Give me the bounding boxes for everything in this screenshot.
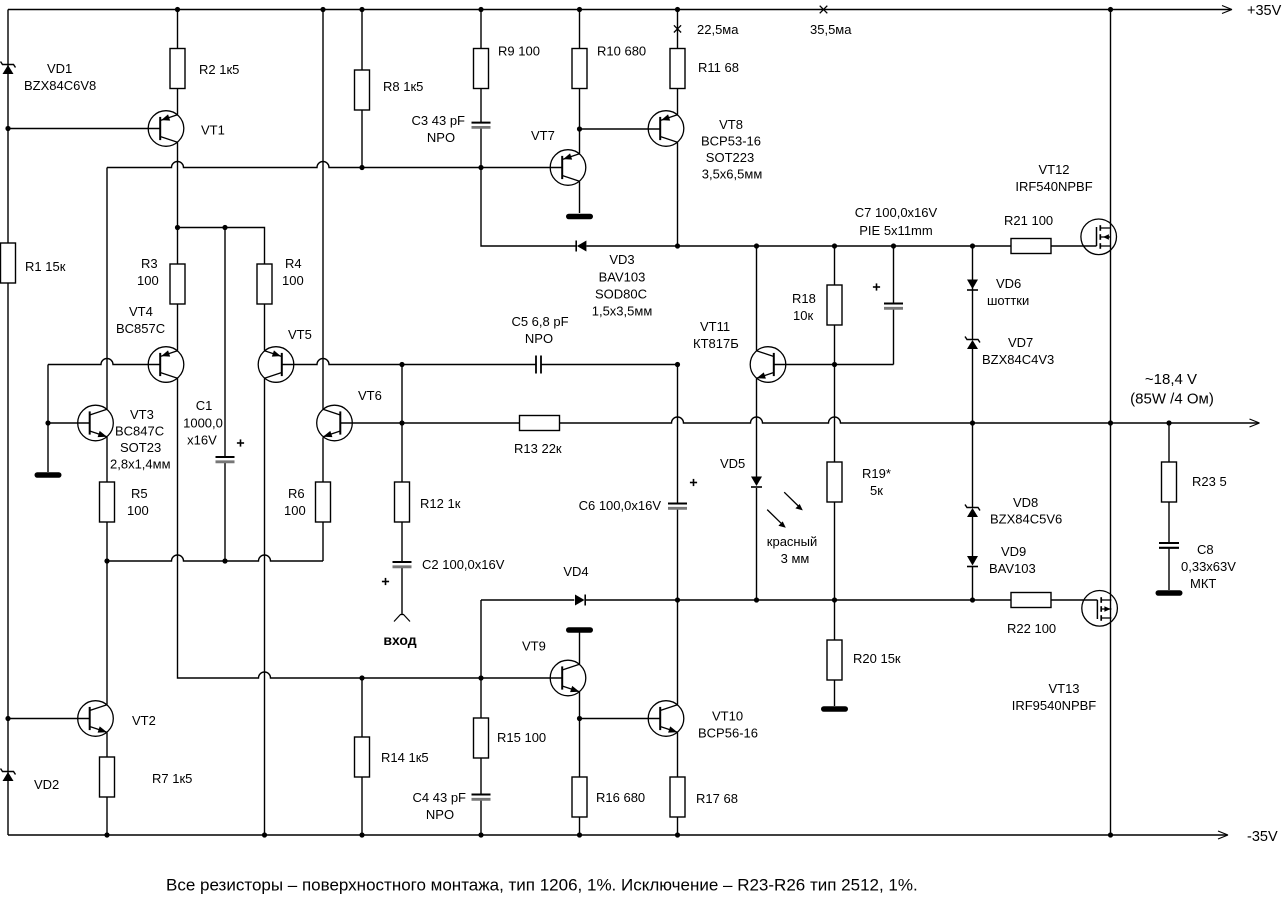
node C3 bottom on y167 (478, 165, 483, 170)
node VT6 collector top rail (320, 7, 325, 12)
transistor VT7 (PNP) (550, 150, 586, 186)
svg-text:R2 1к5: R2 1к5 (199, 62, 239, 77)
wire R9 to C3 (480, 89, 482, 123)
ground C8 (1158, 590, 1180, 596)
wire C7 top lead (893, 246, 895, 304)
node C1 top feed (222, 225, 227, 230)
capacitor C7 100,0x16V (884, 303, 903, 305)
svg-text:вход: вход (383, 632, 416, 648)
plus C1 (237, 442, 244, 444)
svg-text:C3 43 pF: C3 43 pF (412, 113, 466, 128)
resistor R2 (170, 49, 185, 89)
svg-text:R23 5: R23 5 (1192, 474, 1227, 489)
node VD4/C6/VT10 junction (675, 597, 680, 602)
svg-text:SOD80C: SOD80C (595, 287, 647, 302)
wire VD4 row (481, 599, 574, 601)
node VT11 collector top (754, 243, 759, 248)
wire R11 column top (677, 10, 679, 49)
svg-text:VD6: VD6 (996, 276, 1021, 291)
node C7 top (891, 243, 896, 248)
resistor R19 (827, 462, 842, 502)
wire R23 lead (1168, 423, 1170, 462)
svg-text:1000,0: 1000,0 (183, 416, 223, 431)
resistor R17 (670, 777, 685, 817)
svg-text:VT2: VT2 (132, 713, 156, 728)
node R18 top (832, 243, 837, 248)
node R11 top rail (675, 7, 680, 12)
wire VT3 base network (47, 365, 49, 424)
zener diode VD1 BZX84C6V8 (3, 65, 14, 74)
svg-text:R22 100: R22 100 (1007, 621, 1056, 636)
node VD6 top (970, 243, 975, 248)
svg-text:шоттки: шоттки (987, 293, 1029, 308)
resistor R15 (474, 718, 489, 758)
svg-text:IRF540NPBF: IRF540NPBF (1015, 179, 1092, 194)
svg-text:10к: 10к (793, 308, 813, 323)
resistor R11 (670, 49, 685, 89)
svg-text:VT4: VT4 (129, 304, 153, 319)
svg-text:BC857C: BC857C (116, 321, 165, 336)
wire R8 column (361, 10, 363, 71)
node R8 bottom on y167 (359, 165, 364, 170)
wire VT4 base row (48, 359, 160, 365)
svg-text:-35V: -35V (1247, 829, 1278, 845)
svg-text:R8 1к5: R8 1к5 (383, 79, 423, 94)
resistor R5 (100, 482, 115, 522)
wire x107 down to VT2 (106, 561, 108, 705)
svg-text:NPO: NPO (427, 130, 455, 145)
wire VT11 emitter down to VD5 (756, 378, 758, 477)
wire VT3 emitter to R5 (106, 437, 108, 482)
wire VT10 emitter to R17 (677, 732, 679, 777)
svg-text:R6: R6 (288, 486, 305, 501)
wire VD7 to output node (972, 349, 974, 423)
wire VD4 corner down to y678 (480, 600, 482, 678)
resistor R6 (316, 482, 331, 522)
wire VD3 to C6 node (587, 245, 678, 247)
resistor R13 (520, 416, 560, 431)
node output VD7/VD8 junction (970, 420, 975, 425)
wire R17 bottom (677, 817, 679, 835)
svg-text:~18,4 V: ~18,4 V (1145, 371, 1197, 388)
svg-text:КТ817Б: КТ817Б (693, 336, 739, 351)
node R5 bottom (104, 558, 109, 563)
ground VT7 collector (569, 214, 591, 220)
node R3 top (y227) (175, 225, 180, 230)
svg-text:1,5х3,5мм: 1,5х3,5мм (592, 304, 653, 319)
svg-text:BZX84C6V8: BZX84C6V8 (24, 78, 96, 93)
wire R8 bottom lead (361, 108, 363, 168)
wire R2/VT1 column top (177, 10, 179, 115)
wire y678 row (R14/R15/VT9 base) (362, 677, 562, 679)
svg-text:R3: R3 (141, 256, 158, 271)
LED VD5 красный (751, 477, 762, 487)
capacitor C6 100,0x16V (668, 503, 687, 505)
wire R9/C3 column top (480, 10, 482, 49)
svg-text:R16 680: R16 680 (596, 790, 645, 805)
plus C6 (690, 482, 697, 484)
svg-text:22,5ма: 22,5ма (697, 22, 739, 37)
node VT12 top rail (1108, 7, 1113, 12)
wire VT10 collector up to y600 (677, 600, 679, 705)
wire VT1 base (8, 128, 160, 130)
svg-text:VT7: VT7 (531, 128, 555, 143)
resistor R1 (1, 243, 16, 283)
wire R6 bottom to y561 (322, 520, 324, 561)
wire VD9 bottom lead (972, 567, 974, 601)
svg-text:BAV103: BAV103 (989, 561, 1036, 576)
node R2 top rail (175, 7, 180, 12)
node R8 top rail (359, 7, 364, 12)
zener diode VD8 (967, 508, 978, 517)
svg-text:VT10: VT10 (712, 709, 743, 724)
svg-text:x16V: x16V (187, 433, 217, 448)
svg-text:R12 1к: R12 1к (420, 496, 461, 511)
wire R23 to C8 (1168, 501, 1170, 543)
wire VT6 emitter to R6 (322, 437, 324, 482)
svg-text:R17 68: R17 68 (696, 791, 738, 806)
wire C6 bottom to y600 (677, 508, 679, 600)
wire VT12/VT13 drain column (1110, 10, 1112, 424)
node R18 bottom / VT11 base (832, 362, 837, 367)
resistor R16 (572, 777, 587, 817)
ground VT9 collector (top bar) (569, 627, 591, 633)
svg-text:VD9: VD9 (1001, 544, 1026, 559)
svg-text:C8: C8 (1197, 542, 1214, 557)
input break symbol (вход) (394, 615, 410, 622)
wire VD8-VD9 (972, 517, 974, 557)
svg-text:R15 100: R15 100 (497, 730, 546, 745)
resistor R21 (1011, 239, 1051, 254)
svg-text:BZX84C4V3: BZX84C4V3 (982, 352, 1054, 367)
zener diode VD2 (3, 772, 14, 781)
wire C2 to input break (401, 567, 403, 615)
svg-text:VD5: VD5 (720, 456, 745, 471)
resistor R8 (355, 70, 370, 110)
node R14 bottom rail (359, 832, 364, 837)
wire R5 bottom lead (106, 520, 108, 561)
resistor R14 (355, 737, 370, 777)
svg-text:R7 1к5: R7 1к5 (152, 771, 192, 786)
node output R23 junction (1166, 420, 1171, 425)
node VT13 bottom rail (1108, 832, 1113, 837)
svg-text:NPO: NPO (426, 807, 454, 822)
svg-text:VT13: VT13 (1048, 681, 1079, 696)
wire R20 leads (834, 600, 836, 640)
svg-text:0,33x63V: 0,33x63V (1181, 559, 1236, 574)
wire VT11 base to R18 node (774, 364, 894, 366)
svg-text:BCP53-16: BCP53-16 (701, 134, 761, 149)
resistor R7 (100, 757, 115, 797)
wire VT4 collector down / corner to y678 (178, 378, 363, 678)
transistor VT8 BCP53-16 (PNP) (648, 111, 684, 147)
wire -35V bottom rail (8, 834, 1227, 836)
svg-text:R20 15к: R20 15к (853, 651, 901, 666)
svg-text:PIE 5x11mm: PIE 5x11mm (859, 223, 932, 238)
wire R4 feed (y227 row) (178, 228, 265, 265)
wire VT9 emitter down (579, 692, 581, 719)
svg-text:SOT23: SOT23 (120, 440, 161, 455)
svg-text:VT11: VT11 (700, 319, 730, 334)
wire VT6 base to R13 node (340, 422, 402, 424)
wire VT7 emitter up (579, 129, 581, 154)
resistor R20 (827, 640, 842, 680)
svg-text:VT5: VT5 (288, 327, 312, 342)
wire VT13 gate lead (1051, 599, 1097, 601)
node VD5 bottom (754, 597, 759, 602)
wire VT2 emitter to R7 (106, 732, 108, 757)
wire R10 column top (579, 10, 581, 49)
svg-text:IRF9540NPBF: IRF9540NPBF (1012, 698, 1097, 713)
resistor R18 (827, 285, 842, 325)
node VT1 base / left rail (5, 126, 10, 131)
arrowhead +35V rail (1222, 6, 1232, 10)
svg-text:C6 100,0x16V: C6 100,0x16V (579, 498, 662, 513)
diode VD3 BAV103 (577, 241, 587, 252)
break mark X on R11 lead (22,5ма) (674, 25, 681, 32)
svg-text:BAV103: BAV103 (599, 270, 646, 285)
svg-text:3,5х6,5мм: 3,5х6,5мм (702, 167, 763, 182)
wire R10 to VT7/VT8 node (579, 89, 581, 130)
wire R16 bottom (579, 817, 581, 835)
node C1 bottom (222, 558, 227, 563)
node R10 bottom / VT8 base feed (577, 126, 582, 131)
node VD3/C6 junction (675, 243, 680, 248)
wire C3 node down to VD3 corner (481, 168, 576, 247)
svg-text:VD8: VD8 (1013, 495, 1038, 510)
zener diode VD7 (967, 340, 978, 349)
wire y600 row (C6 to R22) (678, 599, 1012, 601)
wire C4 bottom (480, 800, 482, 835)
svg-text:R10 680: R10 680 (597, 44, 646, 59)
wire VT1 collector to node (177, 142, 179, 227)
node VT5 collector bottom rail (262, 832, 267, 837)
wire VT2 base (8, 718, 90, 720)
resistor R10 (572, 49, 587, 89)
node R7 bottom rail (104, 832, 109, 837)
svg-text:C1: C1 (196, 398, 213, 413)
svg-text:5к: 5к (870, 483, 883, 498)
node R13 left node x402 (399, 420, 404, 425)
MOSFET VT12 IRF540NPBF (1081, 219, 1117, 255)
svg-text:VD1: VD1 (47, 61, 72, 76)
svg-text:красный: красный (767, 534, 817, 549)
wire VT5 collector down to -35V rail (264, 378, 266, 835)
wire C1 bottom lead (224, 462, 226, 561)
svg-text:3 мм: 3 мм (781, 551, 810, 566)
wire C5 to C6 node (541, 364, 678, 366)
svg-text:VT3: VT3 (130, 407, 154, 422)
svg-text:(85W /4 Ом): (85W /4 Ом) (1130, 391, 1214, 408)
wire x107 column (corner y167 down to VT3) (106, 168, 108, 410)
node R15 top / VD4 branch (478, 675, 483, 680)
wire R12 to C2 (401, 521, 403, 562)
svg-text:100: 100 (127, 503, 149, 518)
transistor VT5 (PNP, mirrored) (258, 347, 294, 383)
svg-text:VD2: VD2 (34, 777, 59, 792)
wire C3 to y167 node (480, 128, 482, 168)
transistor VT9 (550, 660, 586, 696)
wire R13 left lead (402, 422, 520, 424)
node VD9 bottom (970, 597, 975, 602)
svg-text:R11 68: R11 68 (698, 60, 739, 75)
node R17 bottom rail (675, 832, 680, 837)
transistor VT10 BCP56-16 (648, 701, 684, 737)
wire +35V top rail (8, 9, 1231, 11)
capacitor C2 100,0x16V (393, 561, 412, 563)
capacitor C5 6,8pF (535, 356, 537, 374)
LED arrow 1 (784, 492, 798, 506)
wire VD8 column (972, 423, 974, 508)
ground R20 bottom (824, 706, 846, 712)
resistor R3 (170, 264, 185, 304)
wire VD5 to y600 (756, 488, 758, 600)
wire VT3 base to ground (47, 423, 49, 472)
wire R7 bottom (106, 795, 108, 835)
transistor VT3 BC847C (78, 405, 114, 441)
wire y561 row (R5 bottom to R6 bottom) (107, 555, 323, 561)
wire C6 column (677, 365, 679, 504)
resistor R22 (1011, 593, 1051, 608)
svg-text:VD4: VD4 (563, 564, 588, 579)
wire C1 column (224, 228, 226, 458)
wire VT8 collector down to y246 (677, 142, 679, 246)
transistor VT6 (NPN, mirrored) (317, 405, 353, 441)
wire x402 column (node to R12) (401, 365, 403, 483)
node R14 top (359, 675, 364, 680)
capacitor C8 0,33x63V (1159, 542, 1179, 544)
wire R15 leads (480, 678, 482, 718)
node VT9 emitter / VT10 base (577, 716, 582, 721)
node R16 bottom rail (577, 832, 582, 837)
svg-text:VT1: VT1 (201, 123, 225, 138)
wire VT12 gate lead (1051, 245, 1097, 247)
wire VT7 collector to ground (579, 181, 581, 213)
wire VT10 base lead (580, 718, 661, 720)
svg-text:100: 100 (137, 273, 159, 288)
svg-text:R14 1к5: R14 1к5 (381, 750, 429, 765)
svg-text:R1 15к: R1 15к (25, 259, 66, 274)
wire R16 column (579, 719, 581, 778)
resistor R12 (395, 482, 410, 522)
svg-text:2,8х1,4мм: 2,8х1,4мм (110, 457, 171, 472)
svg-text:35,5ма: 35,5ма (810, 22, 852, 37)
diode VD4 (575, 595, 585, 606)
svg-text:Все резисторы – поверхностного: Все резисторы – поверхностного монтажа, … (166, 876, 918, 895)
svg-text:SOT223: SOT223 (706, 150, 754, 165)
svg-text:R5: R5 (131, 486, 148, 501)
ground VT3 base (37, 472, 59, 478)
plus C7 (873, 286, 880, 288)
wire VT3 base lead (48, 422, 90, 424)
resistor R9 (474, 49, 489, 89)
svg-text:R19*: R19* (862, 466, 891, 481)
schottky diode VD6 (967, 280, 978, 290)
wire VT11 collector up (756, 246, 758, 351)
svg-text:R21 100: R21 100 (1004, 213, 1053, 228)
LED arrow 2 (767, 510, 781, 524)
capacitor C3 43pF (472, 122, 491, 124)
diode VD9 BAV103 (967, 556, 978, 566)
wire C7 corner (893, 308, 895, 364)
svg-text:R9 100: R9 100 (498, 44, 540, 59)
svg-text:BCP56-16: BCP56-16 (698, 726, 758, 741)
svg-text:C2 100,0x16V: C2 100,0x16V (422, 557, 505, 572)
wire R11 to VT8 emitter (677, 89, 679, 115)
transistor VT11 КТ817Б (NPN, mirrored) (750, 347, 786, 383)
wire R4 to VT5 emitter (264, 304, 266, 351)
svg-text:BZX84C5V6: BZX84C5V6 (990, 512, 1062, 527)
wire R14 leads (361, 678, 363, 737)
node C4 bottom rail (478, 832, 483, 837)
node output MOSFET junction (1108, 420, 1113, 425)
wire left rail x=8 (VD1/R1/VD2 column) (7, 10, 9, 836)
svg-text:VD3: VD3 (609, 252, 634, 267)
transistor VT1 (PNP) (148, 111, 184, 147)
node C5 right / C6 top node (675, 362, 680, 367)
wire VD4 right lead (585, 599, 677, 601)
wire VT5 base row to C5 (282, 359, 536, 365)
svg-text:VT6: VT6 (358, 388, 382, 403)
node VT3 base (45, 420, 50, 425)
transistor VT4 BC857C (PNP) (148, 347, 184, 383)
svg-text:VT12: VT12 (1038, 162, 1069, 177)
wire R13 right lead / output row (560, 417, 1259, 423)
svg-text:C5 6,8 pF: C5 6,8 pF (511, 314, 568, 329)
svg-text:VD7: VD7 (1008, 335, 1033, 350)
svg-text:VT8: VT8 (719, 117, 743, 132)
svg-text:100: 100 (282, 273, 304, 288)
break mark X on top rail (35,5ма) (820, 6, 828, 14)
svg-text:C7 100,0x16V: C7 100,0x16V (855, 205, 938, 220)
wire y246 rail (C6 to R21) (678, 245, 1012, 247)
node VT2 base / left rail (5, 716, 10, 721)
wire C8 to ground (1168, 548, 1170, 590)
wire VT9 collector up to ground (579, 632, 581, 664)
svg-text:100: 100 (284, 503, 306, 518)
arrowhead output (1250, 419, 1260, 423)
node R9 top rail (478, 7, 483, 12)
wire VT6 collector column to +35V (322, 10, 324, 410)
svg-text:R4: R4 (285, 256, 302, 271)
transistor VT2 (78, 701, 114, 737)
wire R3 column (177, 228, 179, 351)
wire R18 leads (834, 246, 836, 285)
svg-text:R13 22к: R13 22к (514, 441, 562, 456)
MOSFET VT13 IRF9540NPBF (1082, 591, 1118, 627)
svg-text:+35V: +35V (1247, 3, 1282, 19)
wire R19 bottom (834, 500, 836, 600)
node R19/R20 junction y600 (832, 597, 837, 602)
node R10 top rail (577, 7, 582, 12)
svg-text:NPO: NPO (525, 331, 553, 346)
capacitor C4 43pF (472, 794, 491, 796)
wire VD6-VD7 column (972, 246, 974, 340)
resistor R4 (257, 264, 272, 304)
node C5 left node x402 (399, 362, 404, 367)
wire VT13 column to -35V (1110, 423, 1112, 835)
arrowhead -35V rail (1218, 831, 1228, 835)
svg-text:BC847C: BC847C (115, 424, 164, 439)
wire VT8 base lead (580, 128, 661, 130)
svg-text:R18: R18 (792, 291, 816, 306)
wire y167 row (VT3 col to VT7 base) (107, 162, 562, 168)
svg-text:МКТ: МКТ (1190, 576, 1216, 591)
capacitor C1 1000,0x16V (216, 456, 235, 458)
wire R19 column (834, 365, 836, 463)
svg-text:VT9: VT9 (522, 639, 546, 654)
svg-text:C4 43 pF: C4 43 pF (413, 790, 467, 805)
